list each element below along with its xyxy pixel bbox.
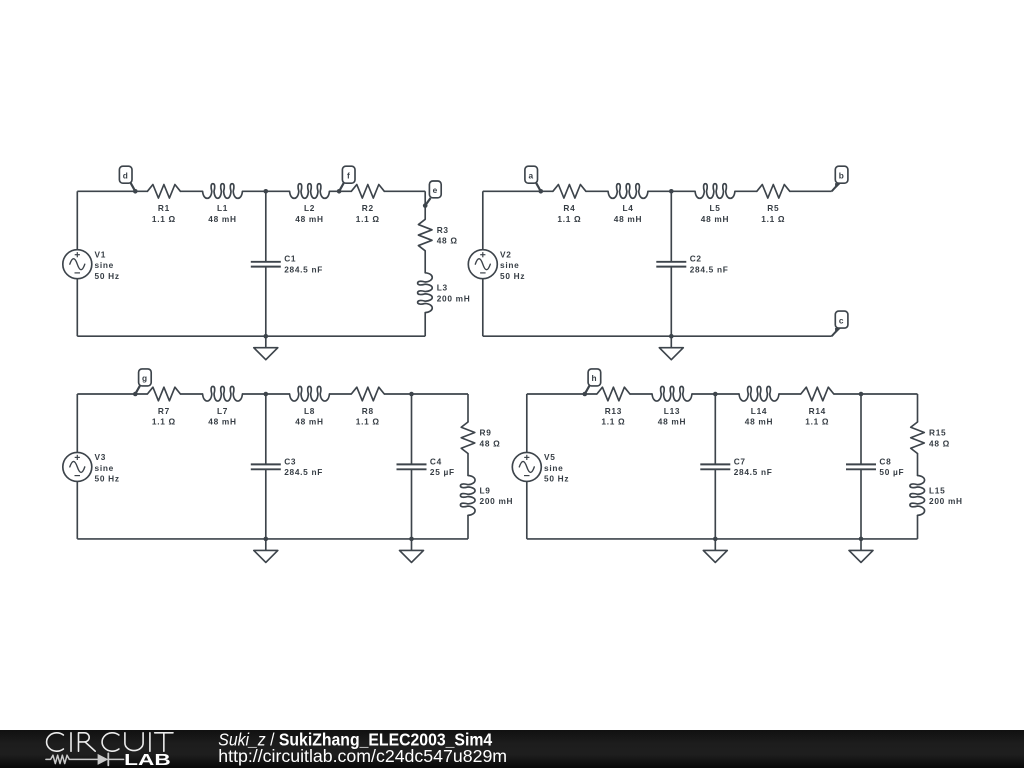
svg-text:50 Hz: 50 Hz — [95, 271, 120, 281]
svg-text:200 mH: 200 mH — [929, 496, 963, 506]
svg-text:R9: R9 — [480, 428, 492, 438]
svg-text:200 mH: 200 mH — [480, 496, 514, 506]
svg-text:L15: L15 — [929, 485, 945, 495]
svg-text:C4: C4 — [430, 456, 442, 466]
svg-text:R7: R7 — [158, 406, 170, 416]
svg-text:R1: R1 — [158, 203, 170, 213]
svg-text:50 Hz: 50 Hz — [544, 474, 569, 484]
svg-text:284.5 nF: 284.5 nF — [734, 467, 773, 477]
svg-text:48 mH: 48 mH — [295, 417, 323, 427]
svg-text:V2: V2 — [500, 249, 512, 259]
svg-text:L14: L14 — [751, 406, 767, 416]
svg-text:48 mH: 48 mH — [745, 417, 773, 427]
svg-text:L8: L8 — [304, 406, 315, 416]
svg-text:48 mH: 48 mH — [658, 417, 686, 427]
svg-text:48 Ω: 48 Ω — [929, 438, 950, 448]
svg-text:L1: L1 — [217, 203, 228, 213]
svg-text:48 mH: 48 mH — [701, 214, 729, 224]
svg-text:C8: C8 — [879, 456, 891, 466]
svg-text:L5: L5 — [709, 203, 720, 213]
svg-text:sine: sine — [544, 463, 563, 473]
svg-text:R5: R5 — [767, 203, 779, 213]
svg-text:200 mH: 200 mH — [437, 294, 471, 304]
svg-text:284.5 nF: 284.5 nF — [284, 467, 323, 477]
svg-text:1.1 Ω: 1.1 Ω — [761, 214, 785, 224]
svg-text:g: g — [142, 373, 148, 383]
svg-text:C3: C3 — [284, 456, 296, 466]
svg-text:R4: R4 — [563, 203, 575, 213]
svg-text:V5: V5 — [544, 452, 556, 462]
svg-text:1.1 Ω: 1.1 Ω — [805, 417, 829, 427]
svg-text:L7: L7 — [217, 406, 228, 416]
svg-text:e: e — [433, 185, 438, 195]
svg-text:48 mH: 48 mH — [208, 417, 236, 427]
svg-text:sine: sine — [95, 260, 114, 270]
svg-text:c: c — [839, 315, 844, 325]
svg-text:48 mH: 48 mH — [208, 214, 236, 224]
svg-text:h: h — [592, 373, 598, 383]
svg-text:L9: L9 — [480, 485, 491, 495]
svg-text:48 mH: 48 mH — [295, 214, 323, 224]
svg-text:b: b — [839, 170, 845, 180]
svg-text:1.1 Ω: 1.1 Ω — [356, 417, 380, 427]
svg-text:C2: C2 — [690, 254, 702, 264]
svg-text:1.1 Ω: 1.1 Ω — [152, 214, 176, 224]
svg-text:a: a — [529, 170, 534, 180]
svg-text:R2: R2 — [362, 203, 374, 213]
svg-text:f: f — [347, 170, 350, 180]
svg-text:1.1 Ω: 1.1 Ω — [152, 417, 176, 427]
svg-text:LAB: LAB — [124, 752, 171, 768]
svg-text:L3: L3 — [437, 283, 448, 293]
svg-text:50 µF: 50 µF — [879, 467, 904, 477]
svg-text:C7: C7 — [734, 456, 746, 466]
svg-text:1.1 Ω: 1.1 Ω — [557, 214, 581, 224]
svg-text:V3: V3 — [95, 452, 107, 462]
svg-text:d: d — [123, 170, 129, 180]
svg-text:L2: L2 — [304, 203, 315, 213]
svg-text:V1: V1 — [95, 249, 107, 259]
svg-text:48 Ω: 48 Ω — [480, 438, 501, 448]
svg-text:50 Hz: 50 Hz — [95, 474, 120, 484]
svg-text:http://circuitlab.com/c24dc547: http://circuitlab.com/c24dc547u829m — [218, 746, 507, 766]
svg-text:L13: L13 — [664, 406, 680, 416]
svg-text:R14: R14 — [809, 406, 826, 416]
svg-text:1.1 Ω: 1.1 Ω — [356, 214, 380, 224]
svg-text:48 mH: 48 mH — [614, 214, 642, 224]
svg-text:C1: C1 — [284, 254, 296, 264]
svg-text:284.5 nF: 284.5 nF — [690, 265, 729, 275]
svg-text:25 µF: 25 µF — [430, 467, 455, 477]
svg-text:R15: R15 — [929, 428, 946, 438]
svg-text:48 Ω: 48 Ω — [437, 236, 458, 246]
svg-text:50 Hz: 50 Hz — [500, 271, 525, 281]
svg-text:L4: L4 — [622, 203, 633, 213]
svg-text:1.1 Ω: 1.1 Ω — [601, 417, 625, 427]
svg-text:sine: sine — [95, 463, 114, 473]
svg-text:R13: R13 — [605, 406, 622, 416]
svg-text:R8: R8 — [362, 406, 374, 416]
svg-text:R3: R3 — [437, 225, 449, 235]
svg-text:sine: sine — [500, 260, 519, 270]
svg-text:284.5 nF: 284.5 nF — [284, 265, 323, 275]
